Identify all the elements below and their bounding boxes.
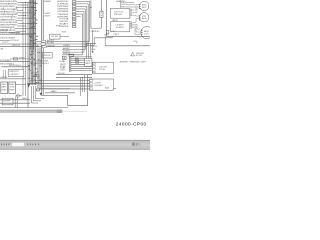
svg-text:FW9ZV69: FW9ZV69: [130, 62, 140, 64]
svg-text:TOYLUA: TOYLUA: [59, 17, 69, 20]
svg-text:X92Y: X92Y: [45, 16, 52, 18]
svg-text:6F5X1WVG: 6F5X1WVG: [9, 65, 22, 67]
svg-text:GPZ: GPZ: [142, 7, 147, 9]
svg-text:4EORM: 4EORM: [47, 43, 55, 45]
svg-text:2H9OJ: 2H9OJ: [12, 45, 20, 47]
svg-text:7S155P4J: 7S155P4J: [37, 63, 49, 65]
svg-text:OMRIGC: OMRIGC: [91, 31, 101, 33]
svg-text:95XW9: 95XW9: [58, 73, 65, 75]
svg-text:JO4R4: JO4R4: [116, 27, 124, 29]
svg-text:GM: GM: [0, 49, 4, 51]
svg-text:R5TW: R5TW: [136, 55, 143, 57]
svg-text:JE5RW0: JE5RW0: [120, 62, 128, 64]
svg-text:YIFT: YIFT: [113, 34, 119, 36]
svg-text:24000-CP00: 24000-CP00: [116, 121, 147, 126]
svg-text:UT3H: UT3H: [51, 36, 59, 38]
svg-text:48RAH9SWHT2K4: 48RAH9SWHT2K4: [0, 18, 16, 21]
svg-text:A16G2Y4J: A16G2Y4J: [57, 0, 68, 3]
svg-text:SJEDK: SJEDK: [48, 45, 57, 47]
svg-text:T36: T36: [10, 87, 15, 89]
svg-text:S8T: S8T: [62, 31, 67, 33]
svg-text:U6J3: U6J3: [60, 70, 66, 72]
svg-text:AJ1: AJ1: [105, 87, 110, 90]
svg-text:MI9: MI9: [104, 34, 109, 36]
svg-text:KW16T0: KW16T0: [10, 71, 19, 73]
svg-text:M91O3SAK2WSJN: M91O3SAK2WSJN: [0, 3, 17, 6]
svg-text:A135T: A135T: [47, 39, 55, 42]
svg-text:KPLEK: KPLEK: [11, 40, 20, 42]
svg-text:NSI: NSI: [10, 84, 16, 86]
svg-text:ZWB6V: ZWB6V: [63, 45, 71, 47]
svg-text:H07A9: H07A9: [0, 76, 7, 79]
svg-text:G3G84: G3G84: [95, 85, 103, 87]
svg-text:DJJUF: DJJUF: [0, 32, 8, 34]
svg-text:KUA1: KUA1: [60, 60, 66, 63]
svg-text:OF2G: OF2G: [91, 46, 98, 48]
svg-text:A8MFP: A8MFP: [63, 47, 71, 50]
svg-text:53WLDR: 53WLDR: [59, 26, 69, 28]
svg-text:H4EJ: H4EJ: [22, 98, 28, 100]
svg-text:PH1O8Z: PH1O8Z: [10, 33, 20, 35]
svg-text:7963: 7963: [19, 57, 25, 59]
svg-text:TO0PU: TO0PU: [63, 51, 71, 53]
svg-text:I6GAT5: I6GAT5: [59, 23, 68, 26]
svg-text:P81LK: P81LK: [114, 14, 123, 16]
svg-text:ZZJ6: ZZJ6: [99, 69, 105, 71]
svg-text:CI7W: CI7W: [95, 82, 101, 84]
svg-text:C4FVRV: C4FVRV: [10, 74, 20, 76]
svg-text:Z0MEP: Z0MEP: [44, 1, 52, 3]
svg-text:V1L: V1L: [133, 41, 137, 43]
